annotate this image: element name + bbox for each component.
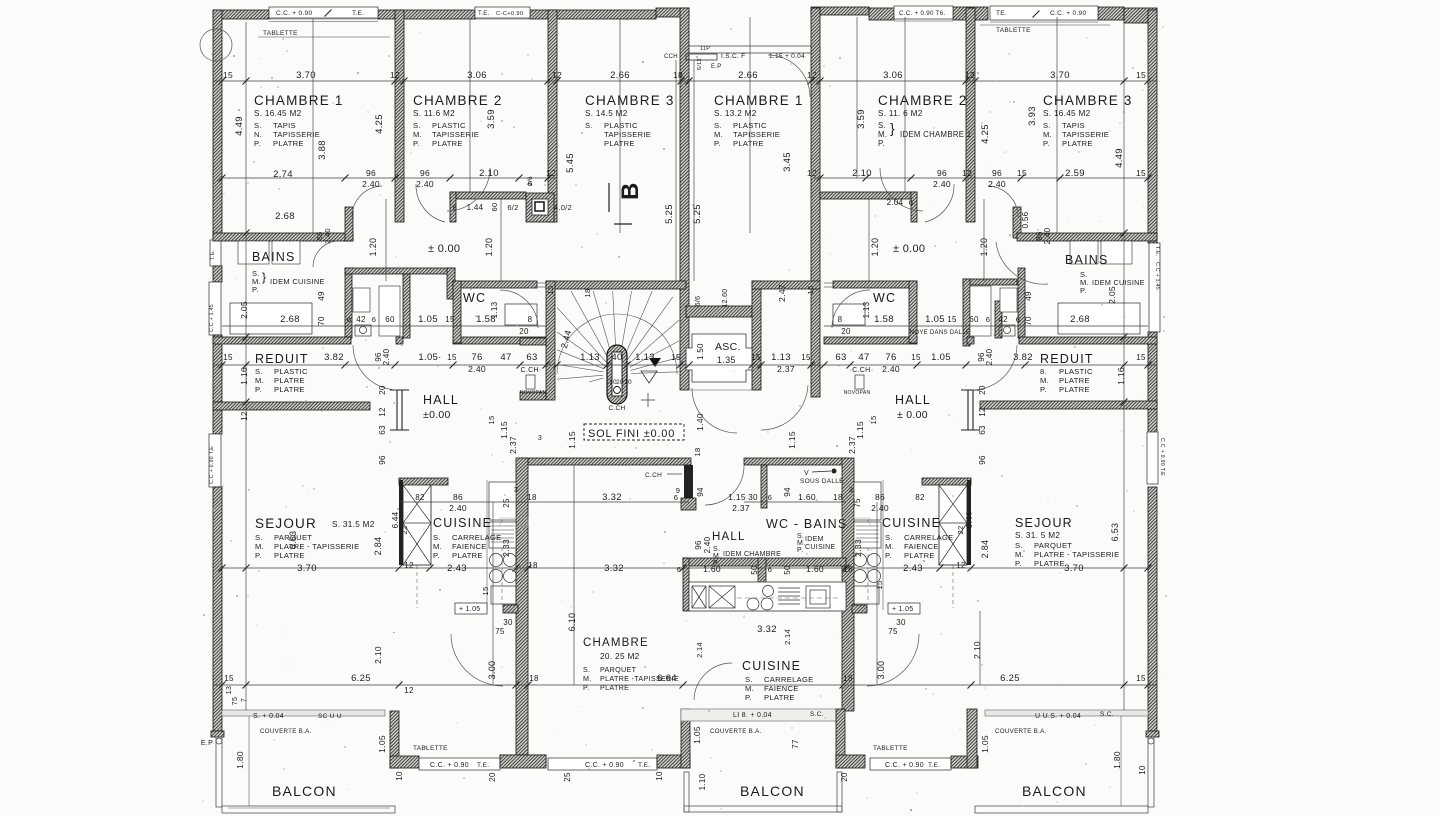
toilet left closet [355, 325, 371, 336]
svg-text:T.E.: T.E. [478, 11, 490, 17]
svg-text:WC: WC [873, 291, 896, 305]
chambre3-right bottom wall [1017, 233, 1157, 241]
svg-text:TAPIS: TAPIS [1062, 121, 1085, 130]
svg-text:TABLETTE: TABLETTE [263, 30, 298, 37]
svg-text:3.93: 3.93 [1027, 106, 1038, 126]
svg-text:2.40: 2.40 [468, 364, 486, 374]
svg-text:2.40: 2.40 [362, 179, 380, 189]
svg-text:12: 12 [404, 561, 414, 570]
svg-text:T.E.: T.E. [477, 762, 489, 769]
svg-text:2.84: 2.84 [373, 537, 383, 556]
asc north wall [686, 306, 752, 317]
svg-text:BALCON: BALCON [740, 783, 805, 799]
svg-text:2.66: 2.66 [610, 70, 630, 81]
svg-text:S. 16.45 M2: S. 16.45 M2 [1043, 109, 1091, 118]
svg-text:}: } [890, 120, 895, 136]
wall chambre1/chambre2 left apt [395, 10, 404, 222]
svg-text:M.: M. [255, 542, 264, 551]
svg-text:C.C. + 0.90 T6.: C.C. + 0.90 T6. [899, 10, 946, 17]
svg-text:HALL: HALL [895, 393, 931, 407]
svg-text:CUISINE: CUISINE [433, 516, 492, 530]
svg-text:S.: S. [885, 533, 893, 542]
svg-text:6.25: 6.25 [1000, 673, 1020, 684]
svg-text:1.80: 1.80 [235, 751, 245, 769]
svg-text:P.: P. [797, 547, 803, 554]
svg-text:P.: P. [255, 385, 262, 394]
south L-wall left [390, 711, 399, 768]
right cuisine north stub wall [922, 478, 971, 485]
svg-text:1.13: 1.13 [771, 352, 791, 363]
svg-text:2.05: 2.05 [1107, 286, 1117, 304]
door arc bains right [996, 242, 1048, 284]
svg-text:77: 77 [791, 739, 800, 749]
svg-text:PLATRE: PLATRE [1034, 559, 1065, 568]
svg-text:S.: S. [1015, 541, 1023, 550]
svg-text:S.C.: S.C. [810, 711, 824, 718]
svg-text:S.: S. [1043, 121, 1051, 130]
svg-text:1.13: 1.13 [635, 352, 655, 363]
svg-text:S.: S. [585, 121, 593, 130]
wall stair corridor / chambre1 right apt [811, 8, 820, 397]
svg-text:2.68: 2.68 [280, 314, 300, 325]
svg-text:NOVOPAN: NOVOPAN [844, 390, 871, 396]
svg-text:}: } [262, 270, 266, 284]
dim line right mid y178 [813, 177, 1148, 179]
wc-left top wall [453, 281, 537, 288]
svg-text:10: 10 [395, 771, 404, 781]
svg-text:86: 86 [875, 492, 885, 502]
svg-text:60: 60 [969, 315, 979, 324]
svg-text:+ 1.05: + 1.05 [892, 606, 913, 613]
svg-text:49: 49 [1024, 291, 1033, 301]
left wall bottom cap [211, 731, 224, 737]
svg-text:IDEM CHAMBRE: IDEM CHAMBRE [723, 551, 781, 558]
svg-text:PLATRE: PLATRE [274, 551, 305, 560]
svg-text:CARRELAGE: CARRELAGE [904, 533, 954, 542]
door frame I-beam left [390, 390, 409, 430]
svg-text:PARQUET: PARQUET [1034, 541, 1072, 550]
svg-text:3.88: 3.88 [317, 140, 328, 160]
door arc sejour left [451, 634, 503, 686]
svg-text:2.33: 2.33 [853, 539, 863, 557]
svg-text:8: 8 [838, 315, 843, 324]
svg-text:3: 3 [849, 487, 853, 494]
svg-text:S. + 0.04: S. + 0.04 [253, 713, 284, 720]
right wall bottom cap [1146, 731, 1159, 737]
svg-text:2.43: 2.43 [903, 563, 923, 574]
svg-text:CHAMBRE: CHAMBRE [583, 637, 649, 649]
bathtub left [230, 303, 312, 334]
svg-text:PLATRE: PLATRE [904, 551, 935, 560]
wall below bains left [213, 337, 351, 344]
svg-text:2.05: 2.05 [239, 301, 249, 319]
svg-text:63: 63 [378, 425, 387, 435]
svg-text:M.: M. [255, 376, 264, 385]
svg-text:S. 13.2 M2: S. 13.2 M2 [714, 109, 757, 118]
svg-text:15: 15 [947, 315, 957, 324]
svg-text:4.0/2: 4.0/2 [554, 203, 572, 212]
svg-text:S.: S. [878, 121, 886, 130]
svg-text:S. 31. 5 M2: S. 31. 5 M2 [1015, 531, 1060, 540]
svg-text:8.: 8. [1040, 367, 1047, 376]
chambre2-right bottom wall [820, 192, 917, 199]
vertical dim line left x246 [245, 22, 247, 710]
svg-text:15: 15 [1136, 70, 1146, 80]
corridor verticals below entrance [675, 60, 677, 281]
svg-text:TAPIS: TAPIS [273, 121, 296, 130]
svg-text:P.: P. [878, 139, 885, 148]
svg-text:1.80: 1.80 [1112, 751, 1122, 769]
svg-text:47: 47 [858, 352, 869, 363]
svg-text:94: 94 [696, 487, 705, 497]
svg-text:6.64: 6.64 [657, 673, 677, 684]
chambre2-right wall end cap [911, 192, 917, 222]
door arc chambre2-hall right [925, 184, 954, 222]
party wall left-cuisine / middle chambre [516, 458, 528, 756]
svg-text:12: 12 [552, 70, 562, 80]
svg-text:75: 75 [232, 697, 239, 705]
svg-text:PARQUET: PARQUET [600, 665, 637, 674]
svg-text:1.13: 1.13 [580, 352, 600, 363]
svg-text:CHAMBRE 1: CHAMBRE 1 [254, 93, 344, 108]
svg-text:6: 6 [909, 198, 913, 207]
wc-right top wall [833, 281, 917, 288]
entrance threshold lines [689, 45, 811, 47]
svg-text:30: 30 [503, 618, 513, 627]
dim line y568 [222, 567, 1148, 569]
door frame I-beam right [961, 390, 980, 430]
svg-text:TE.: TE. [996, 10, 1007, 17]
svg-text:10: 10 [624, 379, 632, 386]
svg-text:C.CH: C.CH [645, 472, 662, 479]
wall stub right bains 0.56 [1013, 207, 1021, 238]
svg-text:PLASTIC: PLASTIC [274, 367, 308, 376]
window box TE / C.C.+0.90 top-right [990, 6, 1098, 20]
dim line y502 [399, 501, 689, 503]
svg-text:12: 12 [378, 407, 387, 417]
svg-text:12: 12 [807, 168, 817, 178]
svg-text:20: 20 [978, 385, 987, 395]
wc window lines left [537, 282, 546, 284]
svg-text:P.: P. [254, 139, 261, 148]
svg-text:6.25: 6.25 [351, 673, 371, 684]
svg-text:70: 70 [1024, 316, 1033, 326]
svg-text:6: 6 [372, 315, 376, 324]
party wall pier T bottom left [500, 755, 546, 766]
svg-text:CARRELAGE: CARRELAGE [452, 533, 502, 542]
svg-text:60: 60 [385, 315, 395, 324]
svg-text:6.53: 6.53 [288, 531, 298, 550]
svg-text:S.: S. [254, 121, 262, 130]
svg-text:PLATRE: PLATRE [733, 139, 764, 148]
left wall window C.C+0.90 T.E. [209, 434, 221, 487]
svg-text:M.: M. [1040, 376, 1049, 385]
svg-text:15: 15 [1136, 353, 1146, 362]
svg-text:S. 16.45 M2: S. 16.45 M2 [254, 109, 302, 118]
door arc hall below asc [692, 388, 737, 433]
svg-text:18: 18 [527, 493, 537, 502]
svg-text:6.10: 6.10 [567, 613, 577, 632]
balcony left 1.80 extension line [248, 716, 250, 806]
svg-text:12: 12 [546, 168, 556, 178]
svg-text:TAPISSERIE: TAPISSERIE [604, 130, 651, 139]
svg-text:25: 25 [502, 498, 511, 508]
svg-text:PLATRE: PLATRE [274, 376, 305, 385]
svg-text:82: 82 [415, 493, 425, 502]
closet divider wall left [403, 274, 410, 338]
svg-text:2.40: 2.40 [871, 503, 889, 513]
svg-text:WC: WC [463, 291, 486, 305]
svg-text:1.15: 1.15 [787, 431, 797, 449]
svg-text:2.40: 2.40 [1043, 227, 1052, 244]
svg-text:CUISINE: CUISINE [805, 544, 836, 551]
svg-text:4.49: 4.49 [234, 116, 245, 136]
svg-text:2.37: 2.37 [847, 436, 857, 454]
svg-text:T.E.: T.E. [1154, 246, 1160, 257]
svg-text:ASC.: ASC. [715, 341, 741, 353]
svg-text:15: 15 [223, 70, 233, 80]
svg-text:CARRELAGE: CARRELAGE [764, 675, 814, 684]
svg-text:15: 15 [481, 587, 490, 596]
door arc reduit left [353, 345, 397, 390]
svg-text:6: 6 [677, 565, 681, 574]
svg-text:15: 15 [911, 353, 921, 362]
svg-text:PLASTIC: PLASTIC [432, 121, 466, 130]
svg-text:96: 96 [420, 168, 430, 178]
svg-text:S.: S. [433, 533, 441, 542]
svg-text:12: 12 [390, 70, 400, 80]
svg-text:18: 18 [528, 561, 538, 570]
right cuisine tall cabinet [939, 485, 967, 565]
svg-text:M.: M. [1043, 130, 1052, 139]
svg-text:5.45: 5.45 [565, 153, 576, 173]
stairwell top wall [546, 281, 686, 289]
svg-text:PLATRE: PLATRE [1059, 376, 1090, 385]
svg-text:M.: M. [413, 130, 422, 139]
svg-text:15: 15 [869, 416, 878, 425]
window box C.C.+0.90 TE top-right [894, 6, 953, 19]
wall below wc right [824, 337, 917, 344]
chambre2-left wall end cap [450, 192, 456, 222]
svg-text:BAINS: BAINS [1065, 253, 1109, 267]
svg-text:1.58: 1.58 [874, 314, 894, 325]
svg-text:BALCON: BALCON [272, 783, 337, 799]
svg-text:CHAMBRE 2: CHAMBRE 2 [878, 93, 968, 108]
svg-text:96: 96 [937, 168, 947, 178]
svg-text:1.16: 1.16 [239, 367, 249, 385]
svg-text:S.: S. [413, 121, 421, 130]
svg-text:NOVOPAN: NOVOPAN [520, 390, 547, 396]
middle kitchen divider stub [758, 558, 766, 583]
door arc chambre2-hall left [416, 184, 445, 222]
svg-text:42: 42 [998, 315, 1008, 324]
svg-text:1.05: 1.05 [925, 314, 945, 325]
door arc chambre1-hall left [352, 186, 382, 217]
section mark B [608, 183, 610, 212]
door arc wc right [832, 290, 870, 328]
svg-text:63: 63 [978, 425, 987, 435]
wall below bains right [1019, 337, 1157, 344]
svg-text:20: 20 [378, 385, 387, 395]
svg-text:4.49: 4.49 [1114, 148, 1125, 168]
svg-text:HALL: HALL [712, 531, 746, 543]
top exterior wall - right apartment [811, 7, 869, 15]
svg-text:13: 13 [226, 686, 233, 694]
door arc bains left [313, 241, 338, 267]
svg-text:IDEM CHAMBRE 1: IDEM CHAMBRE 1 [900, 130, 971, 139]
sejour-right balcony sill band [985, 710, 1148, 716]
wall below reduit left [213, 402, 370, 410]
svg-text:1.20: 1.20 [870, 238, 880, 257]
svg-text:8: 8 [528, 315, 533, 324]
toilet right closet [999, 325, 1015, 336]
right exterior wall mid [1148, 332, 1157, 434]
svg-text:M.: M. [583, 674, 592, 683]
middle balcony sill band [681, 709, 837, 721]
wc-right basin [833, 304, 865, 325]
svg-text:P.: P. [583, 683, 589, 692]
south window box3 [870, 758, 951, 770]
svg-text:C.CH·: C.CH· [521, 367, 542, 374]
svg-text:12.60: 12.60 [722, 288, 729, 307]
svg-text:SOL FINI ±0.00: SOL FINI ±0.00 [588, 428, 675, 440]
svg-text:18: 18 [673, 70, 683, 80]
svg-text:22: 22 [956, 526, 965, 535]
svg-text:3.70: 3.70 [296, 70, 316, 81]
svg-text:15: 15 [447, 353, 457, 362]
door arc middle hall [705, 466, 744, 505]
balcony left outline [216, 737, 222, 807]
svg-text:3.06: 3.06 [467, 70, 487, 81]
svg-text:IDEM CUISINE: IDEM CUISINE [1092, 278, 1145, 287]
svg-text:1.44: 1.44 [467, 203, 484, 212]
svg-text:1.05: 1.05 [980, 735, 990, 753]
svg-text:S. 11.6 M2: S. 11.6 M2 [413, 109, 455, 118]
chambre2 end cap lower left [447, 268, 455, 299]
svg-text:2.10: 2.10 [479, 168, 499, 179]
svg-text:U U.S. + 0.04: U U.S. + 0.04 [1035, 713, 1081, 720]
svg-text:M.: M. [713, 553, 721, 560]
closet divider wall right [995, 301, 1002, 338]
svg-text:75: 75 [495, 627, 505, 636]
svg-text:76: 76 [471, 352, 482, 363]
svg-text:2.04: 2.04 [887, 198, 904, 207]
svg-text:P.: P. [714, 139, 721, 148]
middle apt north wall east part [744, 458, 846, 465]
svg-text:M.: M. [433, 542, 442, 551]
svg-text:2.10: 2.10 [972, 641, 982, 659]
svg-text:12: 12 [965, 70, 975, 80]
svg-text:47: 47 [500, 352, 511, 363]
svg-text:1.15: 1.15 [567, 431, 577, 449]
svg-text:20: 20 [519, 327, 529, 336]
wall bains divider right [1018, 268, 1025, 338]
svg-text:C.C + 1.45: C.C + 1.45 [1154, 262, 1160, 290]
svg-text:P.: P. [745, 693, 752, 702]
door arc chambre3 right [880, 168, 923, 211]
svg-text:PLATRE: PLATRE [274, 385, 305, 394]
wall chambre1/chambre2 right apt [966, 8, 975, 222]
svg-text:6: 6 [453, 203, 457, 212]
svg-text:BAINS: BAINS [252, 250, 296, 264]
stair newel capsule [607, 345, 627, 404]
vertical dim line right x1124 [1123, 22, 1125, 710]
svg-text:PLASTIC: PLASTIC [604, 121, 638, 130]
svg-text:18: 18 [529, 674, 539, 683]
window box C.C.+0.90 / T.E. top-left [269, 7, 378, 18]
svg-text:1.13: 1.13 [490, 301, 499, 318]
south window box1 [419, 758, 500, 770]
svg-text:3.45: 3.45 [782, 152, 793, 172]
svg-text:M.: M. [745, 684, 754, 693]
svg-text:15: 15 [224, 674, 234, 683]
left exterior wall mid [213, 266, 222, 282]
svg-text:6.44: 6.44 [965, 511, 974, 528]
svg-text:6: 6 [768, 565, 772, 574]
svg-text:3.82: 3.82 [324, 352, 344, 363]
wall chambre2/chambre3 left apt [548, 10, 557, 222]
sol fini box [584, 424, 684, 440]
svg-text:70: 70 [317, 316, 326, 326]
svg-text:18: 18 [833, 493, 843, 502]
svg-text:15: 15 [1136, 168, 1146, 178]
svg-text:96: 96 [366, 168, 376, 178]
dim line bains y326 [222, 325, 546, 327]
svg-text:20: 20 [616, 379, 624, 386]
svg-text:76: 76 [885, 352, 896, 363]
svg-text:FAIENCE: FAIENCE [764, 684, 799, 693]
svg-text:20: 20 [840, 772, 849, 782]
dim line y685 [213, 684, 1157, 686]
svg-text:± 0.00: ± 0.00 [897, 409, 928, 421]
svg-text:P.: P. [413, 139, 420, 148]
svg-text:T.E.: T.E. [352, 10, 364, 17]
svg-text:2.66: 2.66 [738, 70, 758, 81]
south corner wall mid-left [657, 755, 690, 768]
bains closet north wall right [963, 279, 1017, 285]
svg-text:M.: M. [1015, 550, 1024, 559]
svg-text:15: 15 [1017, 168, 1027, 178]
step wall right of chambre1 bottom [345, 207, 353, 241]
svg-text:2.10: 2.10 [373, 646, 383, 664]
svg-text:22: 22 [400, 526, 409, 535]
svg-text:FAIENCE: FAIENCE [904, 542, 939, 551]
svg-text:2.74: 2.74 [273, 169, 293, 180]
svg-text:12: 12 [240, 411, 249, 421]
wall below reduit right [980, 401, 1157, 409]
svg-text:1.16: 1.16 [1116, 367, 1126, 385]
svg-text:CHAMBRE 3: CHAMBRE 3 [1043, 93, 1133, 108]
balcony right outline [1148, 737, 1154, 807]
svg-text:15: 15 [223, 353, 233, 362]
svg-text:9: 9 [676, 486, 680, 495]
closet west wall right [963, 279, 970, 346]
svg-text:S. 14.5 M2: S. 14.5 M2 [585, 109, 628, 118]
svg-text:T.E.: T.E. [928, 762, 940, 769]
svg-text:2/6: 2/6 [527, 176, 534, 186]
svg-text:25: 25 [563, 772, 572, 782]
svg-text:1.05: 1.05 [377, 735, 387, 753]
svg-text:2.14: 2.14 [783, 629, 792, 645]
svg-text:4.25: 4.25 [980, 124, 991, 144]
svg-text:96: 96 [378, 455, 387, 465]
top exterior wall - left apartment [213, 10, 269, 19]
window box T.E. / C-C+0.90 top-left 2 [475, 7, 530, 18]
left cuisine pier +1.05 [503, 605, 518, 613]
svg-text:BALCON: BALCON [1022, 783, 1087, 799]
svg-text:12: 12 [962, 168, 972, 178]
svg-text:1.15 + 0.04: 1.15 + 0.04 [769, 53, 805, 60]
